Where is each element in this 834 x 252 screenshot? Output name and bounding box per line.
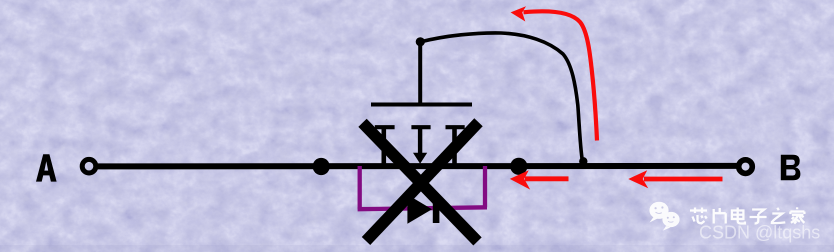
svg-text:CSDN @ltqshs: CSDN @ltqshs [699, 223, 820, 243]
